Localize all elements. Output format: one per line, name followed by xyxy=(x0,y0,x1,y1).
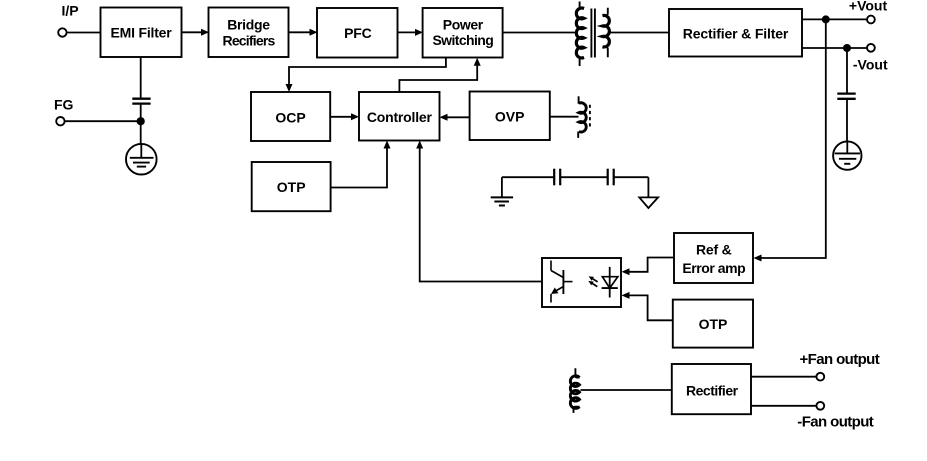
wire optocoupler to Controller (arrow) xyxy=(416,141,542,282)
wire Power Switching to OCP (arrow) xyxy=(286,58,446,93)
wire Bridge Recifiers to PFC (arrow) xyxy=(289,29,318,36)
svg-text:Rectifier: Rectifier xyxy=(686,382,739,398)
wire capacitor C1 to FG junction xyxy=(140,104,142,121)
svg-text:I/P: I/P xyxy=(62,3,79,19)
transformer T1 primary winding xyxy=(576,2,584,67)
optocoupler phototransistor xyxy=(551,261,573,303)
svg-text:OTP: OTP xyxy=(699,316,728,332)
block OTP (secondary side) xyxy=(673,300,753,348)
block Rectifier xyxy=(672,364,751,414)
wire OTP to Controller (arrow) xyxy=(331,141,391,188)
terminal FG xyxy=(56,117,64,125)
svg-text:Recifiers: Recifiers xyxy=(223,33,276,49)
svg-text:Power: Power xyxy=(443,16,484,32)
terminal +Vout xyxy=(867,16,875,24)
wire FG to junction xyxy=(65,120,141,122)
block EMI Filter xyxy=(101,8,182,58)
wire Controller to Power Switching (arrow) xyxy=(399,58,480,92)
capacitor C2 xyxy=(837,94,855,99)
capacitor C1 xyxy=(132,99,150,104)
terminal +Fan output xyxy=(816,373,824,381)
svg-text:+Vout: +Vout xyxy=(849,0,888,14)
transformer T1 core xyxy=(591,9,595,58)
block OTP (primary side) xyxy=(252,162,331,211)
wire OVP to Controller (arrow) xyxy=(440,114,470,121)
signal ground xyxy=(491,197,513,205)
block Controller xyxy=(359,92,440,141)
block OCP xyxy=(251,92,330,141)
svg-text:OCP: OCP xyxy=(275,109,305,125)
svg-text:-Fan output: -Fan output xyxy=(797,414,873,431)
transformer T1 secondary winding xyxy=(603,8,610,58)
wire PFC to Power Switching (arrow) xyxy=(398,29,424,36)
wire OCP to Controller (arrow) xyxy=(330,113,359,120)
svg-text:Ref &: Ref & xyxy=(696,241,732,257)
svg-text:Controller: Controller xyxy=(367,109,433,125)
svg-text:Switching: Switching xyxy=(432,32,493,48)
svg-text:Error amp: Error amp xyxy=(682,260,745,276)
wire +Vout rail down to Ref & Error amp (arrow) xyxy=(754,19,826,261)
optocoupler U1 xyxy=(542,258,621,307)
optocoupler light arrows xyxy=(588,276,597,286)
wire FG junction to earth ground xyxy=(140,121,142,144)
wire capacitor C2 to earth ground xyxy=(846,99,848,142)
block Bridge Recifiers xyxy=(209,8,289,58)
junction dot FG xyxy=(137,117,145,125)
block Ref & Error amp xyxy=(674,233,753,283)
earth ground (input) xyxy=(126,144,157,175)
wire inductor L2 to Rectifier xyxy=(581,389,672,391)
svg-text:OVP: OVP xyxy=(495,109,525,125)
block PFC xyxy=(317,8,398,58)
terminal -Vout xyxy=(867,44,875,52)
wire OVP to sense winding xyxy=(550,116,579,118)
svg-text:+Fan output: +Fan output xyxy=(800,351,880,368)
wire Ref & Error amp to optocoupler (arrow) xyxy=(622,258,675,276)
wire EMI Filter to Bridge Recifiers (arrow) xyxy=(182,29,210,36)
capacitor C4 xyxy=(608,169,614,186)
wire I/P to EMI Filter xyxy=(67,32,101,34)
svg-text:PFC: PFC xyxy=(344,25,371,41)
wire Y-capacitor chain xyxy=(502,177,649,197)
svg-text:FG: FG xyxy=(54,97,74,113)
svg-text:OTP: OTP xyxy=(277,179,306,195)
wire Rectifier to -Fan output xyxy=(751,405,816,407)
chassis ground triangle xyxy=(639,197,658,208)
svg-text:-Vout: -Vout xyxy=(853,57,888,73)
wire Rectifier & Filter to -Vout xyxy=(802,47,867,49)
svg-text:EMI Filter: EMI Filter xyxy=(110,25,172,41)
block OVP xyxy=(470,92,550,141)
wire -Vout rail down to capacitor C2 xyxy=(846,48,848,93)
inductor L2 xyxy=(570,368,579,413)
terminal I/P xyxy=(58,28,66,36)
block Rectifier & Filter xyxy=(669,9,802,57)
wire transformer T1 to Rectifier & Filter xyxy=(610,32,669,34)
junction dot +Vout rail xyxy=(822,15,830,23)
terminal -Fan output xyxy=(816,402,824,410)
optocoupler LED D1 xyxy=(602,267,618,298)
svg-text:Rectifier & Filter: Rectifier & Filter xyxy=(683,25,789,41)
svg-text:Bridge: Bridge xyxy=(227,16,270,32)
sense winding L1 xyxy=(578,96,590,138)
block Power Switching xyxy=(423,8,503,58)
wire EMI Filter down to capacitor C1 xyxy=(140,57,142,99)
earth ground (output) xyxy=(833,141,861,169)
wire Rectifier to +Fan output xyxy=(751,376,816,378)
wire OTP to optocoupler (arrow) xyxy=(622,292,673,320)
wire Rectifier & Filter to +Vout xyxy=(802,18,867,20)
wire Power Switching to transformer T1 xyxy=(503,32,577,34)
capacitor C3 xyxy=(554,169,560,186)
junction dot -Vout rail xyxy=(843,44,851,52)
